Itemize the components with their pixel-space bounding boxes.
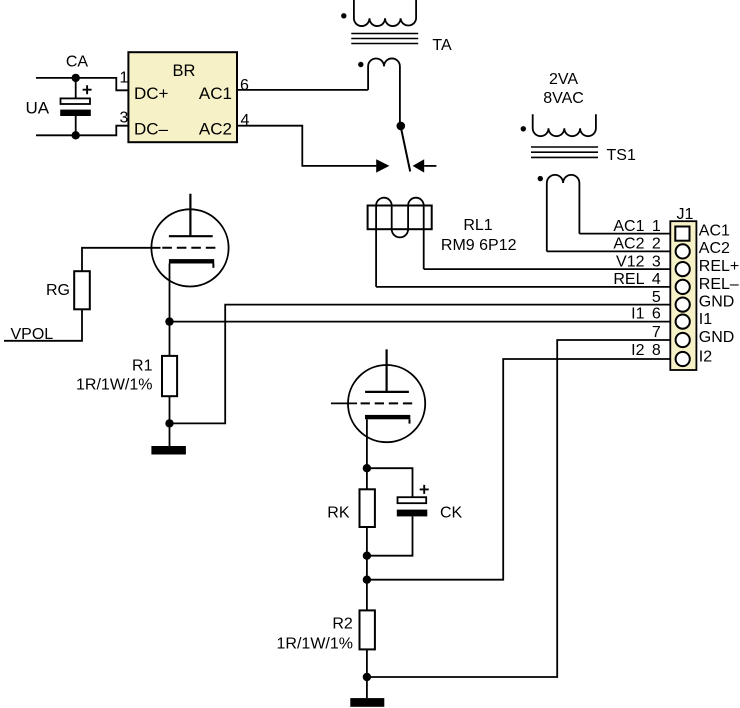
svg-text:REL+: REL+ xyxy=(699,258,739,275)
svg-text:4: 4 xyxy=(652,271,661,288)
transformer TA xyxy=(341,0,452,126)
wire: TS1 secondary left to J1 pin 2 AC2 xyxy=(547,250,671,252)
svg-text:DC+: DC+ xyxy=(134,84,169,103)
svg-text:I1: I1 xyxy=(631,306,644,323)
svg-text:6: 6 xyxy=(240,77,249,94)
svg-text:1R/1W/1%: 1R/1W/1% xyxy=(277,636,353,653)
svg-text:DC–: DC– xyxy=(134,120,169,139)
resistor RG xyxy=(74,271,90,309)
J1 pin 6 xyxy=(676,315,690,329)
wire: R1 bottom node to J1 pin 5 GND xyxy=(170,305,671,424)
J1 pin 4 xyxy=(676,280,690,294)
wire: node K1 to R1 xyxy=(169,322,171,356)
svg-text:J1: J1 xyxy=(676,206,693,223)
svg-text:2: 2 xyxy=(652,236,661,253)
triode V2 envelope xyxy=(348,365,425,442)
svg-text:AC1: AC1 xyxy=(699,222,730,239)
resistor RK xyxy=(360,489,375,527)
V1 grid (dashed) xyxy=(162,247,215,249)
transformer TS1 xyxy=(521,71,636,251)
wire: TS1 secondary right to J1 pin 1 AC1 xyxy=(579,233,670,235)
node UA bottom xyxy=(72,131,80,139)
wire: node K3 to R2 xyxy=(366,580,368,611)
switch (selector on TA secondary) xyxy=(376,122,436,173)
svg-text:AC2: AC2 xyxy=(613,236,644,253)
node R2 bottom xyxy=(363,673,371,681)
V1 cathode xyxy=(169,259,214,263)
connector J1 xyxy=(670,206,696,370)
svg-text:I2: I2 xyxy=(631,342,644,359)
svg-text:1: 1 xyxy=(120,70,129,87)
node K1 (V1 cathode / R1 top / I1) xyxy=(165,317,173,325)
svg-text:AC2: AC2 xyxy=(199,120,232,139)
svg-text:I2: I2 xyxy=(699,349,712,366)
svg-text:REL: REL xyxy=(613,271,644,288)
J1 pin 7 xyxy=(676,333,690,347)
svg-text:RM9 6P12: RM9 6P12 xyxy=(441,237,517,254)
svg-text:3: 3 xyxy=(120,110,129,127)
svg-text:2VA: 2VA xyxy=(549,71,578,88)
node RK/CK bottom xyxy=(363,552,371,560)
svg-text:AC2: AC2 xyxy=(699,240,730,257)
svg-text:8VAC: 8VAC xyxy=(543,90,584,107)
svg-text:CA: CA xyxy=(66,53,89,70)
wire: BR AC2 pin 4 to switch left contact xyxy=(237,126,376,166)
J1 pin 1 (square pad) xyxy=(675,227,689,241)
V2 cathode xyxy=(365,415,410,419)
svg-text:AC1: AC1 xyxy=(199,84,232,103)
wire: RG to VPOL xyxy=(4,309,82,341)
J1 pin 2 xyxy=(676,244,690,258)
svg-text:RK: RK xyxy=(327,505,350,522)
wire: R2 bottom to ground xyxy=(366,649,368,698)
capacitor UA (polarized) xyxy=(26,78,92,135)
wire: left input to CA node to BR DC+ pin 1 xyxy=(36,78,128,90)
svg-text:RL1: RL1 xyxy=(463,217,492,234)
svg-text:VPOL: VPOL xyxy=(11,326,54,343)
V2 grid (dashed) with stub xyxy=(361,402,413,404)
bridge rectifier BR xyxy=(128,52,237,142)
svg-text:3: 3 xyxy=(652,253,661,270)
node R1 bottom (GND) xyxy=(165,419,173,427)
resistor R2 xyxy=(360,610,375,649)
svg-text:8: 8 xyxy=(652,342,661,359)
svg-text:6: 6 xyxy=(652,306,661,323)
relay coil RL1 RM9 6P12 xyxy=(368,198,517,287)
svg-text:TA: TA xyxy=(432,37,452,54)
node K3 (tap to I2) xyxy=(363,576,371,584)
triode V1 envelope xyxy=(151,209,228,286)
wire: RL1 left lead to J1 pin 4 REL xyxy=(376,286,670,288)
svg-text:REL–: REL– xyxy=(699,276,739,293)
wire: V1 cathode to node K1 xyxy=(169,264,171,322)
wire: bottom node to BR DC- pin 3 xyxy=(36,126,128,136)
svg-text:RG: RG xyxy=(46,282,70,299)
ground (bottom) xyxy=(350,698,384,707)
svg-text:V12: V12 xyxy=(616,253,645,270)
ground (left) xyxy=(151,446,186,455)
J1 pin 5 xyxy=(676,298,690,312)
wire: RL1 right lead to J1 pin 3 V12 xyxy=(424,268,671,270)
svg-text:CK: CK xyxy=(440,505,463,522)
svg-text:BR: BR xyxy=(173,62,196,80)
svg-text:5: 5 xyxy=(652,289,661,306)
wire: node K2 to CK top xyxy=(367,468,413,497)
svg-text:R2: R2 xyxy=(332,615,353,632)
svg-text:R1: R1 xyxy=(132,358,153,375)
svg-text:AC1: AC1 xyxy=(613,218,644,235)
svg-text:GND: GND xyxy=(699,329,735,346)
wire: node K1 to J1 pin 6 I1 xyxy=(170,321,671,323)
resistor R1 xyxy=(162,356,177,396)
V1 anode xyxy=(169,194,213,237)
svg-text:I1: I1 xyxy=(699,311,712,328)
svg-text:TS1: TS1 xyxy=(607,147,636,164)
wire: node K2 to RK xyxy=(366,468,368,489)
svg-text:GND: GND xyxy=(699,294,735,311)
wire: R2 bottom node to J1 pin 7 GND xyxy=(367,340,670,677)
wire: node K3 to J1 pin 8 I2 xyxy=(367,359,670,580)
capacitor CK (polarized) xyxy=(367,485,463,556)
J1 pin 8 xyxy=(676,352,690,366)
wire: RK bottom to node K3 xyxy=(366,527,368,580)
wire: V2 cathode to node K2 xyxy=(366,419,368,468)
svg-text:7: 7 xyxy=(652,324,661,341)
node K2 (V2 cathode / RK / CK) xyxy=(363,464,371,472)
svg-text:UA: UA xyxy=(26,98,50,117)
V2 anode xyxy=(365,349,409,392)
node CA xyxy=(72,74,80,82)
wire: V1 grid to RG xyxy=(82,248,161,271)
wire: BR AC1 pin 6 to TA secondary left terminal xyxy=(237,89,368,91)
J1 pin 3 xyxy=(676,262,690,276)
svg-text:1R/1W/1%: 1R/1W/1% xyxy=(76,377,152,394)
svg-text:1: 1 xyxy=(652,218,661,235)
wire: R1 bottom to ground xyxy=(169,396,171,446)
